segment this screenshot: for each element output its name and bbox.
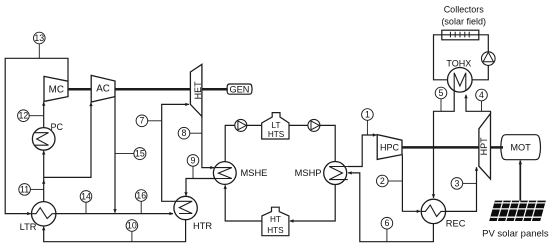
- svg-text:TOHX: TOHX: [446, 59, 471, 69]
- svg-text:HTR: HTR: [193, 221, 212, 231]
- generator GEN: [227, 84, 252, 94]
- svg-text:MC: MC: [49, 84, 64, 95]
- svg-text:LT: LT: [272, 121, 281, 130]
- turbine HPT: [479, 114, 491, 180]
- svg-text:MSHE: MSHE: [241, 168, 268, 178]
- node 10: [126, 220, 138, 242]
- wire junction to PC bottom: [43, 151, 45, 181]
- node 11: [19, 184, 44, 196]
- compressor MC: [44, 76, 68, 101]
- wire 12 PC to MC: [43, 102, 45, 128]
- salt wire P1 to LT tank: [246, 124, 262, 126]
- wire 11 LTR top to split junction: [43, 180, 45, 202]
- heat exchanger TOHX: [446, 59, 472, 93]
- svg-text:PC: PC: [51, 122, 64, 132]
- heat exchanger MSHP: [295, 162, 348, 185]
- wire PV to MOT: [519, 161, 521, 201]
- salt wire P2 to MSHP top: [319, 125, 335, 161]
- wire 9 MSHE out to HTR top: [186, 179, 215, 196]
- wire 2 HPC outlet to REC left: [402, 155, 420, 212]
- node 9: [187, 155, 199, 179]
- tank LT HTS: [262, 113, 289, 139]
- wire 15 AC outlet down to junction: [114, 97, 116, 213]
- svg-text:13: 13: [34, 33, 44, 43]
- salt wire MSHE top to pump P1: [225, 125, 236, 161]
- svg-text:9: 9: [191, 155, 196, 165]
- wire 4 HPT outlet to TOHX: [466, 95, 491, 114]
- node 4: [476, 89, 488, 111]
- wire 10 HTR bottom to LTR bottom: [44, 220, 186, 242]
- svg-text:5: 5: [439, 88, 444, 98]
- svg-text:HTS: HTS: [268, 130, 285, 139]
- svg-text:6: 6: [384, 218, 389, 228]
- svg-text:HT: HT: [270, 215, 281, 224]
- svg-text:MSHP: MSHP: [295, 168, 322, 178]
- turbine HET: [190, 64, 203, 116]
- wire 13 loop MC outlet to LTR left: [5, 58, 68, 213]
- collectors box: [442, 30, 479, 40]
- svg-text:REC: REC: [446, 219, 466, 229]
- compressor HPC: [377, 135, 402, 160]
- svg-text:8: 8: [182, 128, 187, 138]
- pump P1: [235, 119, 247, 131]
- node 1: [362, 109, 374, 135]
- node 12: [18, 110, 44, 122]
- pump P2: [308, 119, 320, 131]
- node 7: [136, 115, 162, 127]
- PV solar panels: [489, 201, 546, 221]
- recuperator REC: [421, 199, 466, 228]
- svg-text:3: 3: [454, 178, 459, 188]
- node 8: [178, 127, 202, 139]
- wire 8 HET outlet to MSHE: [202, 116, 214, 167]
- recuperator HTR: [174, 196, 212, 231]
- svg-text:GEN: GEN: [230, 84, 250, 94]
- salt wire MSHP bottom to HT tank: [290, 185, 335, 221]
- svg-text:7: 7: [139, 116, 144, 126]
- node 6: [381, 217, 393, 241]
- svg-text:14: 14: [81, 191, 91, 201]
- node 3: [451, 178, 476, 190]
- wire 14/16 LTR right to HTR left: [56, 213, 173, 215]
- heat exchanger MSHE: [213, 162, 267, 185]
- svg-text:Collectors: Collectors: [444, 5, 485, 15]
- cooler PC: [32, 122, 63, 150]
- compressor AC: [91, 75, 115, 102]
- shaft HPT-MOT: [491, 146, 504, 149]
- svg-text:11: 11: [20, 184, 29, 194]
- svg-text:4: 4: [479, 90, 484, 100]
- tank HT HTS: [262, 207, 289, 236]
- shaft HPC-HPT: [402, 146, 479, 149]
- svg-text:HTS: HTS: [267, 226, 284, 235]
- svg-text:HPC: HPC: [380, 143, 400, 153]
- svg-text:HPT: HPT: [479, 137, 489, 156]
- wire 5 TOHX out to REC top: [434, 91, 455, 198]
- node 5: [435, 87, 447, 111]
- node 14: [80, 191, 92, 214]
- node 16: [135, 190, 147, 214]
- svg-text:LTR: LTR: [20, 222, 37, 232]
- svg-text:AC: AC: [96, 84, 110, 95]
- svg-text:10: 10: [127, 220, 137, 230]
- collector loop wire: [434, 35, 489, 80]
- salt wire LT tank to pump P2: [289, 124, 309, 126]
- node 13: [34, 32, 46, 58]
- shaft HET-GEN: [202, 88, 228, 91]
- recuperator LTR: [20, 202, 56, 232]
- svg-text:16: 16: [136, 190, 146, 200]
- svg-text:PV solar panels: PV solar panels: [482, 228, 549, 239]
- svg-text:(solar field): (solar field): [441, 17, 486, 27]
- pump P3 collector: [482, 52, 496, 66]
- svg-text:MOT: MOT: [510, 143, 531, 153]
- svg-text:15: 15: [135, 149, 145, 159]
- svg-text:1: 1: [365, 109, 370, 119]
- wire 7 HTR out to HET inlet: [162, 104, 189, 201]
- wire 3 REC right to HPT inlet: [446, 167, 477, 211]
- svg-text:HET: HET: [193, 81, 203, 100]
- wire junction to AC inlet: [44, 103, 91, 178]
- salt wire HT tank to MSHE bottom: [225, 185, 262, 221]
- wire 6 REC bottom to MSHP right: [348, 173, 433, 242]
- node 2: [377, 175, 403, 187]
- wire 1 MSHP out to HPC inlet: [348, 135, 377, 167]
- svg-text:12: 12: [19, 111, 29, 121]
- svg-text:2: 2: [380, 176, 385, 186]
- shaft MC-AC: [68, 88, 91, 91]
- shaft AC-HET: [115, 88, 190, 91]
- node 15: [115, 148, 146, 160]
- motor MOT: [501, 135, 541, 160]
